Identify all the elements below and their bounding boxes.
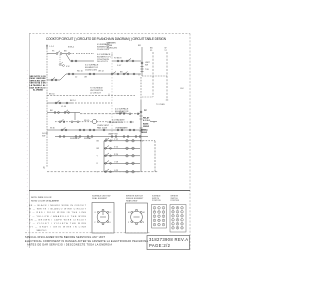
svg-text:5 GY: 5 GY: [117, 65, 122, 67]
label block T7: [115, 107, 129, 115]
svg-text:L: L: [154, 224, 155, 226]
switch box 1 label: [92, 195, 111, 201]
svg-text:4.0 RADIANT: 4.0 RADIANT: [112, 119, 125, 122]
svg-text:P: P: [154, 212, 155, 214]
wire G: [55, 136, 148, 138]
svg-text:4 W: 4 W: [66, 66, 70, 68]
svg-text:SURFACE: SURFACE: [70, 137, 80, 140]
wire right riser 2: [140, 77, 158, 141]
svg-text:POSITION: POSITION: [171, 200, 180, 202]
rung 2: [104, 146, 140, 150]
svg-text:( ): ( ): [153, 121, 155, 123]
svg-text:6.0 SURFACE: 6.0 SURFACE: [85, 63, 99, 66]
svg-text:BK 14: BK 14: [70, 100, 76, 102]
wire D: [47, 100, 112, 104]
svg-text:SPECIAL DISCLAIMER NOTE BEFORE: SPECIAL DISCLAIMER NOTE BEFORE SERVICING…: [25, 236, 106, 239]
svg-text:2: 2: [154, 216, 155, 218]
svg-text:( ): ( ): [138, 74, 140, 76]
label block T1: [97, 43, 110, 51]
svg-text:SW: SW: [42, 135, 45, 137]
svg-text:P: P: [172, 215, 173, 217]
svg-text:1: 1: [177, 215, 178, 217]
separator: [29, 190, 190, 192]
svg-text:750W 120V: 750W 120V: [107, 47, 118, 49]
svg-text:PAGE:2/2: PAGE:2/2: [149, 243, 171, 248]
wire dashed riser mid: [111, 52, 113, 140]
svg-text:SW: SW: [145, 65, 148, 67]
svg-text:DUAL ELEMENT: DUAL ELEMENT: [92, 197, 108, 200]
svg-text:W — WHITE / BLANCO WIRE CIRCUI: W — WHITE / BLANCO WIRE CIRCUIT: [29, 208, 87, 211]
svg-text:NOTA: COLOR DE ALAMBRE: NOTA: COLOR DE ALAMBRE: [31, 199, 60, 202]
note block left: [30, 76, 47, 92]
table 1: [152, 205, 167, 229]
svg-text:3400W: 3400W: [141, 131, 147, 134]
svg-text:1: 1: [173, 219, 174, 221]
svg-text:P.P.: P.P.: [144, 110, 148, 112]
svg-text:OVEN LIGHT: OVEN LIGHT: [115, 127, 128, 129]
svg-text:L: L: [182, 219, 183, 221]
svg-text:L1 40: L1 40: [61, 106, 67, 108]
rung 5: [104, 169, 140, 173]
title block: [147, 236, 190, 250]
rung 3: [104, 153, 140, 157]
legend: [31, 197, 60, 202]
rung 1: [104, 138, 155, 142]
svg-text:RD 45: RD 45: [84, 120, 89, 122]
table 2 header: [171, 196, 180, 203]
switch box 1: [92, 203, 114, 234]
ladder: [104, 141, 141, 172]
svg-text:O 28: O 28: [114, 162, 118, 164]
rung 4: [104, 161, 140, 165]
svg-text:P: P: [158, 216, 159, 218]
node L1 arrow: [46, 44, 48, 48]
table 1 header: [152, 195, 161, 203]
ladder labels: [70, 137, 108, 140]
wire main vertical L1: [46, 48, 48, 167]
svg-text:2100W 240V: 2100W 240V: [97, 49, 110, 51]
svg-text:240 VOLTS: 240 VOLTS: [97, 61, 108, 63]
svg-text:COOKTOP CIRCUIT ( ) CIRCUITO D: COOKTOP CIRCUIT ( ) CIRCUITO DE PLANCHA …: [46, 37, 167, 41]
svg-text:1: 1: [163, 220, 164, 222]
svg-text:Y 22: Y 22: [114, 139, 118, 141]
svg-text:R — RED / ROJO WIRE IN THE LIN: R — RED / ROJO WIRE IN THE LINE: [29, 212, 87, 214]
svg-text:1: 1: [159, 224, 160, 226]
svg-text:POSITION: POSITION: [152, 200, 161, 202]
svg-text:318273908 REV.A: 318273908 REV.A: [149, 237, 188, 242]
svg-text:2: 2: [182, 207, 183, 209]
svg-text:2585W: 2585W: [143, 126, 149, 128]
svg-text:V — VIOLET / VIOLETA THE WIRE: V — VIOLET / VIOLETA THE WIRE: [29, 222, 87, 225]
wire dashed riser L2: [152, 52, 154, 97]
svg-text:L: L: [154, 207, 155, 209]
wire dashed riser W: [166, 52, 168, 100]
label block T2: [97, 53, 113, 63]
border frame: [27, 34, 190, 251]
svg-text:R 26: R 26: [114, 154, 118, 156]
svg-text:L2: L2: [110, 212, 112, 214]
svg-text:1200W 240V: 1200W 240V: [115, 113, 128, 115]
switch box 2: [126, 203, 148, 233]
label block T3: [85, 63, 99, 71]
switch box 2 label: [126, 196, 144, 203]
wire ladder right: [154, 141, 156, 172]
svg-text:L2 CIRCUIT: L2 CIRCUIT: [90, 93, 102, 95]
wire dashed mid: [47, 95, 135, 97]
svg-text:SIGNAL: SIGNAL: [84, 137, 92, 140]
svg-text:P: P: [172, 227, 173, 229]
svg-text:FAN 100W: FAN 100W: [97, 126, 107, 129]
svg-text:N: N: [143, 222, 144, 224]
svg-text:TOD: TOD: [145, 69, 150, 71]
svg-text:H: H: [110, 222, 111, 224]
svg-text:TO OVEN: TO OVEN: [156, 104, 165, 106]
label block T9: [108, 127, 128, 135]
wire branch down from wire A: [59, 55, 64, 67]
svg-text:LAMP SW: LAMP SW: [108, 132, 118, 135]
svg-text:GY — GRAY / GRIS WIRE IN LINE: GY — GRAY / GRIS WIRE IN LINE: [29, 226, 87, 229]
svg-text:P: P: [163, 216, 164, 218]
svg-text:H1: H1: [128, 212, 130, 214]
svg-text:K-1 N.O.: K-1 N.O.: [143, 120, 151, 122]
wire right riser: [141, 47, 168, 76]
svg-text:P: P: [128, 222, 129, 224]
rung left wire labels: [97, 141, 100, 174]
label block T8: [97, 119, 125, 130]
svg-text:P: P: [177, 219, 178, 221]
svg-text:1: 1: [182, 211, 183, 213]
svg-text:1500W 240V: 1500W 240V: [85, 70, 98, 72]
svg-text:2: 2: [163, 212, 164, 214]
svg-text:SEE PG 1: SEE PG 1: [37, 230, 48, 232]
svg-text:L1: L1: [95, 212, 97, 214]
svg-text:ELEM 120V: ELEM 120V: [112, 122, 124, 124]
svg-text:2: 2: [163, 224, 164, 226]
svg-text:L: L: [173, 223, 174, 225]
svg-text:BR — BROWN / CAFE WIRE CIRCUIT: BR — BROWN / CAFE WIRE CIRCUIT: [29, 218, 87, 221]
wire E with motor: [47, 110, 141, 124]
svg-text:8 BK-2: 8 BK-2: [68, 47, 75, 49]
svg-text:BK — BLACK / NEGRO WIRE IN CIR: BK — BLACK / NEGRO WIRE IN CIRCUIT: [29, 204, 87, 207]
svg-text:BK 50: BK 50: [49, 93, 55, 95]
disclaimer: [25, 236, 148, 246]
wire C: [47, 72, 141, 81]
svg-text:ANTES DE DAR SERVICIO / DESCON: ANTES DE DAR SERVICIO / DESCONECTE TODA …: [27, 243, 112, 246]
svg-text:P: P: [177, 223, 178, 225]
svg-text:G 29: G 29: [114, 170, 118, 172]
svg-text:OR 12: OR 12: [98, 71, 105, 73]
wire top A: [47, 51, 94, 61]
svg-text:H2: H2: [143, 212, 145, 214]
svg-text:L: L: [163, 207, 164, 209]
label block T4: [107, 42, 118, 50]
svg-text:RD 10: RD 10: [77, 71, 84, 73]
svg-text:V 24: V 24: [114, 147, 118, 149]
bottom dashed line: [25, 232, 150, 234]
svg-text:NOTE: WIRE COLOR: NOTE: WIRE COLOR: [31, 197, 52, 199]
wire F: [47, 127, 148, 131]
svg-text:1: 1: [154, 220, 155, 222]
svg-text:L: L: [159, 207, 160, 209]
wire neutral dashed: [47, 171, 158, 173]
svg-text:Y — YELLOW / AMARILLO THE WIRE: Y — YELLOW / AMARILLO THE WIRE: [29, 215, 87, 218]
svg-text:AL UNIDAD: AL UNIDAD: [33, 89, 44, 92]
svg-text:P: P: [95, 222, 96, 224]
svg-text:N: N: [43, 167, 45, 170]
svg-text:( ): ( ): [108, 94, 110, 96]
svg-text:REAR VIEW: REAR VIEW: [126, 200, 137, 203]
table 2: [170, 205, 186, 233]
svg-text:P2 BK 8: P2 BK 8: [114, 58, 122, 60]
svg-text:2: 2: [177, 211, 178, 213]
wire B: [70, 59, 141, 62]
